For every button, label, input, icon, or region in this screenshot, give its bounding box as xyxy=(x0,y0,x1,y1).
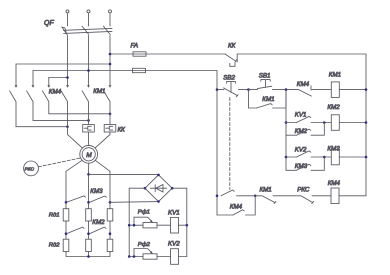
wire branch2 mid xyxy=(157,256,171,258)
node rotor row1 tap1 xyxy=(65,201,68,204)
thermal contact KK blade xyxy=(225,54,236,61)
speed relay shaft dashed link xyxy=(38,158,80,167)
svg-text:КМ4: КМ4 xyxy=(297,81,310,88)
node ladder KV2 xyxy=(285,156,288,159)
wire control feed 1 (phase C to fuse FA) xyxy=(110,53,225,55)
rheostat Rf1 wiper arrow xyxy=(134,217,152,225)
wire main row seg5 xyxy=(312,89,331,91)
svg-text:QF: QF xyxy=(44,20,54,27)
svg-text:КМ4: КМ4 xyxy=(49,88,62,95)
wire main row seg4 xyxy=(273,89,299,91)
rectifier bridge diode xyxy=(150,185,167,193)
node frame left branch2 xyxy=(128,255,131,258)
contactor KM3 rotor blade 2 xyxy=(90,196,106,202)
wire L2 drop xyxy=(88,13,90,26)
wire rotor 3 vertical xyxy=(109,171,111,208)
node bridge right xyxy=(171,187,174,190)
wire branch1 left xyxy=(129,224,143,226)
terminal L2 xyxy=(87,10,90,13)
button SB2 blade xyxy=(224,88,238,96)
contactor KM1 pole 1 blade xyxy=(61,91,67,105)
contactor KM1 pole 3 blade xyxy=(104,91,110,105)
svg-text:КМ1: КМ1 xyxy=(93,88,105,95)
wire KK to right rail xyxy=(237,53,366,55)
wire motor line 3 lower xyxy=(95,132,110,148)
contactor KM1 pole 2 fixed arrow xyxy=(87,85,90,88)
wire KM3 aux return xyxy=(311,157,324,170)
node phase A crossover xyxy=(66,76,69,79)
contact KM4 hold return xyxy=(246,196,256,215)
contactor KM2 coil xyxy=(331,115,339,131)
node rotor row2 tap3 xyxy=(109,232,112,235)
wire main row seg2 xyxy=(239,89,249,91)
wire phase C vertical xyxy=(109,36,111,87)
contactor KM3 rotor blade 1 xyxy=(67,196,86,202)
svg-text:КМ1: КМ1 xyxy=(260,186,272,193)
resistor Rd1-2 xyxy=(86,209,92,221)
node rotor row1 tap2 xyxy=(87,201,90,204)
svg-text:КМ3: КМ3 xyxy=(295,163,308,170)
contactor KM4 pole 1 stub xyxy=(15,64,17,86)
rheostat Rf2 wiper arrow xyxy=(134,249,152,257)
wire motor to bridge top xyxy=(89,173,159,175)
wire L3 drop xyxy=(109,13,111,26)
rheostat Rf1 arrowhead xyxy=(150,220,153,223)
svg-text:Рф2: Рф2 xyxy=(138,242,151,248)
svg-text:Рф1: Рф1 xyxy=(138,209,150,215)
terminal L1 xyxy=(66,10,69,13)
wire rung1 seg xyxy=(311,122,331,124)
contact KM1 aux branch xyxy=(249,90,257,108)
wire rotor 1 diagonal xyxy=(66,160,82,171)
rheostat Rf2 arrowhead xyxy=(150,251,153,254)
node rotor star xyxy=(87,255,90,258)
contactor KM1 pole 1 fixed arrow xyxy=(66,85,69,88)
wire KM4 pole3 bottom xyxy=(49,105,110,114)
svg-text:SB2: SB2 xyxy=(223,74,235,81)
wire left rail xyxy=(216,71,218,216)
wire KM2 aux return xyxy=(311,123,324,136)
svg-text:РКС: РКС xyxy=(297,186,310,193)
wire right rail xyxy=(365,54,367,196)
contactor KM4 coil xyxy=(331,188,339,204)
node merge 3 xyxy=(109,113,112,116)
wire motor line 1 xyxy=(68,105,83,149)
node ladder top xyxy=(285,88,288,91)
node phase C crossover xyxy=(109,63,112,66)
contact KM4 NC stop tick xyxy=(310,86,312,90)
node rotor 2 bridge tap xyxy=(87,173,90,176)
wire bottom row seg2 xyxy=(273,195,301,197)
node rung2 join xyxy=(323,156,326,159)
node left rail main row xyxy=(216,88,219,91)
wire KM4 pole2 bottom xyxy=(33,105,89,121)
wire rotor 2 vertical xyxy=(88,163,90,209)
svg-text:КМ2: КМ2 xyxy=(92,219,105,226)
svg-text:КМ4: КМ4 xyxy=(328,180,341,187)
node rotor row2 tap2 xyxy=(87,232,90,235)
wire rotor 3 diagonal xyxy=(95,160,110,171)
svg-text:SB1: SB1 xyxy=(259,72,271,79)
relay contact KV1 blade xyxy=(297,116,311,122)
thermal relay KK heater 1 xyxy=(83,125,95,133)
contact KM2 aux blade xyxy=(297,129,311,135)
contactor KM4 pole 3 fixed arrow xyxy=(47,85,50,88)
contactor KM1 pole 3 fixed arrow xyxy=(109,85,112,88)
wire motor line 2 upper xyxy=(88,105,90,125)
wire motor line 2 lower xyxy=(88,132,90,146)
node left rail bottom row xyxy=(216,195,219,198)
contactor KM3 coil xyxy=(331,149,339,165)
contactor KM4 pole 1 fixed arrow xyxy=(15,85,18,88)
contact KM4 hold blade xyxy=(233,210,244,215)
button SB1 actuator xyxy=(261,80,270,88)
resistor Rd2-3 xyxy=(107,239,113,251)
wire L1 drop xyxy=(67,13,69,26)
node SB1 left xyxy=(247,88,250,91)
fuse FA body xyxy=(133,52,146,56)
node bridge left xyxy=(144,187,147,190)
wire column1 mid xyxy=(65,221,67,239)
contactor KM1 coil xyxy=(331,82,339,98)
rheostat Rf2 body xyxy=(143,254,157,259)
wire rotor star bottom xyxy=(66,252,110,257)
wire KM4 crossover 1 (to phase C) xyxy=(16,63,110,65)
wire motor line 3 upper xyxy=(109,105,111,125)
contactor KM1 pole 2 blade xyxy=(82,91,88,105)
node Rf1 wiper base xyxy=(133,224,136,227)
breaker QF linkage bar xyxy=(63,28,112,33)
node frame right branch1 xyxy=(186,224,189,227)
rectifier bridge VD diamond xyxy=(145,175,172,202)
wire bridge right to frame xyxy=(172,188,187,256)
node bridge bottom xyxy=(157,200,160,203)
contact KM4 hold branch xyxy=(217,214,233,216)
resistor Rd1-1 xyxy=(63,209,69,221)
wire branch1 right xyxy=(179,224,187,226)
contactor KM2 rotor blade 1 xyxy=(67,227,84,233)
node rail KM2 xyxy=(365,121,368,124)
wire branch1 mid xyxy=(157,224,171,226)
wire rung2 stub xyxy=(286,156,297,158)
wire KM4 pole1 bottom xyxy=(16,105,68,127)
wire bridge left to frame xyxy=(129,188,145,256)
contactor KM4 pole 2 blade xyxy=(27,91,33,105)
breaker QF pole 2 blade xyxy=(82,26,89,34)
thermal contact KK release hook xyxy=(230,62,235,66)
node rotor row1 tap3 xyxy=(109,201,112,204)
breaker QF pole 1 blade and handle flag xyxy=(62,27,68,35)
svg-text:КК: КК xyxy=(118,127,126,134)
wire bottom row seg1 xyxy=(237,195,256,197)
wire KM2 coil to rail xyxy=(339,122,366,124)
svg-text:КК: КК xyxy=(228,43,236,50)
wire main row seg3 xyxy=(249,89,258,91)
node rail KM1 xyxy=(365,88,368,91)
wire rotor 1 vertical xyxy=(65,171,67,208)
node Rf2 wiper base xyxy=(133,255,136,258)
breaker QF pole 3 blade xyxy=(103,26,110,34)
svg-text:KV1: KV1 xyxy=(168,209,180,216)
node KM4 aux join xyxy=(254,195,257,198)
svg-text:КМ1: КМ1 xyxy=(262,96,274,103)
relay contact KV2 blade xyxy=(297,151,311,157)
terminal L3 xyxy=(109,10,112,13)
speed relay RKS circle xyxy=(24,161,39,176)
node rotor row2 tap1 xyxy=(65,232,68,235)
contactor KM4 pole 3 stub xyxy=(48,78,50,87)
svg-text:М: М xyxy=(86,152,92,159)
wire ladder vertical xyxy=(285,90,287,171)
button SB1 blade xyxy=(257,86,272,88)
wire branch2 right xyxy=(179,256,187,258)
relay KV2 coil xyxy=(171,249,179,265)
svg-text:Rд2: Rд2 xyxy=(49,242,61,248)
thermal contact KK blade tick xyxy=(235,59,237,61)
wire KM4 crossover 2 / control feed 2 xyxy=(33,70,217,72)
contactor KM4 pole 3 blade xyxy=(42,91,48,105)
svg-text:FA: FA xyxy=(131,43,139,50)
node merge 1 xyxy=(66,125,69,128)
wire branch2 left xyxy=(129,256,143,258)
node phase B crossover xyxy=(87,69,90,72)
relay KV1 coil xyxy=(171,217,179,233)
wire KM1 coil to rail xyxy=(339,89,366,91)
thermal relay KK heater 2 xyxy=(104,125,116,133)
wire bottom row seg3 xyxy=(312,195,331,197)
node merge 2 xyxy=(87,119,90,122)
contact KM1 NC blade xyxy=(255,196,276,204)
svg-text:KV2: KV2 xyxy=(168,241,180,248)
wire KM4 coil to rail xyxy=(339,195,366,197)
svg-text:КМ1: КМ1 xyxy=(329,71,341,78)
wire rung1 stub xyxy=(286,122,297,124)
svg-text:КМ2: КМ2 xyxy=(327,104,340,111)
node phase C / feed1 xyxy=(109,53,112,56)
resistor Rd2-2 xyxy=(86,239,92,251)
wire column3 mid xyxy=(109,221,111,239)
wire phase A vertical xyxy=(67,36,69,87)
rheostat Rf1 body xyxy=(143,223,157,228)
speed relay contact RKS blade xyxy=(301,196,314,204)
contact KM3 aux blade xyxy=(297,164,311,170)
wire rung2 seg xyxy=(311,156,331,158)
contact KM1 aux blade xyxy=(257,104,273,108)
node rail KM3 xyxy=(365,156,368,159)
wire KM2 aux stub xyxy=(286,134,297,136)
node rung1 join xyxy=(323,121,326,124)
wire tap3 to bridge bottom xyxy=(110,201,159,204)
resistor Rd2-1 xyxy=(63,239,69,251)
wire KM3 aux stub xyxy=(286,169,297,171)
wire KM3 coil to rail xyxy=(339,156,366,158)
svg-text:КМ4: КМ4 xyxy=(230,203,243,210)
thermal contact KK fixed drop xyxy=(236,54,238,62)
wire column2 mid xyxy=(88,221,90,239)
contactor KM4 pole 2 fixed arrow xyxy=(32,85,35,88)
wire main row seg1 xyxy=(217,89,224,91)
button SB2 aux blade xyxy=(221,190,234,196)
contact KM4 NC blade xyxy=(299,90,312,97)
button SB2 blade tick xyxy=(236,95,238,97)
node ladder KV1 xyxy=(285,121,288,124)
node frame left branch1 xyxy=(128,224,131,227)
svg-text:РКС: РКС xyxy=(25,167,35,173)
wire phase B vertical xyxy=(88,36,90,87)
svg-text:КМ2: КМ2 xyxy=(295,128,308,135)
contactor KM4 pole 1 blade xyxy=(10,91,16,105)
svg-text:КМ3: КМ3 xyxy=(90,188,103,195)
svg-text:KV1: KV1 xyxy=(295,112,307,119)
contactor KM4 pole 2 stub xyxy=(32,71,34,87)
contact KM1 aux return xyxy=(273,90,287,108)
button SB2 actuator xyxy=(227,82,236,93)
fuse 2 body xyxy=(133,68,146,72)
button SB2 linkage dashed xyxy=(229,98,231,190)
svg-text:Rд1: Rд1 xyxy=(49,213,60,219)
contactor KM2 rotor blade 2 xyxy=(90,227,106,233)
node bridge top xyxy=(157,174,160,177)
resistor Rd1-3 xyxy=(107,209,113,221)
motor M xyxy=(80,145,98,163)
wire KM4 crossover 3 (to phase A) xyxy=(49,77,68,79)
